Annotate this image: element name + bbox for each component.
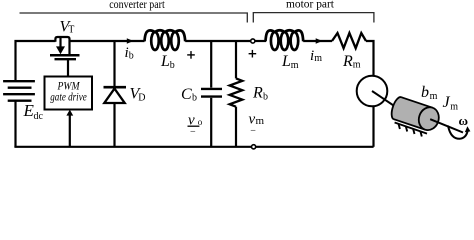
resistor R_b bbox=[230, 78, 243, 106]
svg-text:ω: ω bbox=[458, 113, 468, 128]
wire node to Lm bbox=[255, 40, 266, 42]
diode V_D bbox=[104, 87, 127, 103]
PWM gate drive box bbox=[45, 77, 93, 110]
node circle top bbox=[251, 39, 255, 43]
svg-text:b: b bbox=[129, 51, 134, 62]
transistor V_T bbox=[50, 37, 80, 77]
capacitor branch lower bbox=[210, 98, 212, 147]
load cylinder bbox=[389, 96, 442, 133]
svg-text:m: m bbox=[353, 60, 361, 71]
svg-text:L: L bbox=[281, 53, 291, 70]
svg-text:b: b bbox=[421, 84, 429, 101]
wire Rm to right rail bbox=[366, 41, 374, 75]
svg-text:b: b bbox=[170, 60, 175, 71]
diode V_D branch wire upper bbox=[113, 41, 115, 86]
svg-text:C: C bbox=[181, 86, 192, 103]
inductor L_m bbox=[266, 30, 304, 50]
svg-text:R: R bbox=[252, 85, 263, 102]
svg-text:motor part: motor part bbox=[286, 0, 335, 11]
svg-text:R: R bbox=[342, 53, 353, 70]
svg-text:converter part: converter part bbox=[109, 0, 165, 11]
motor shaft left bbox=[372, 91, 398, 109]
wire top middle segment bbox=[70, 40, 145, 42]
resistor R_b branch upper bbox=[235, 41, 237, 78]
wire between Lb and node bbox=[185, 40, 250, 42]
svg-text:gate drive: gate drive bbox=[50, 89, 87, 103]
wire Lm to Rm bbox=[303, 40, 332, 42]
svg-text:D: D bbox=[138, 93, 145, 104]
svg-text:dc: dc bbox=[34, 111, 44, 122]
wire top left segment bbox=[16, 41, 56, 81]
inductor L_b bbox=[145, 30, 186, 50]
node circle bottom bbox=[252, 145, 256, 149]
svg-text:o: o bbox=[198, 117, 203, 127]
wire left rail lower bbox=[14, 101, 16, 147]
resistor branch lower bbox=[235, 107, 237, 147]
svg-text:m: m bbox=[430, 91, 438, 102]
converter part bracket bbox=[20, 13, 248, 23]
plus sign v_m bbox=[249, 50, 257, 58]
svg-text:m: m bbox=[291, 60, 299, 71]
wire bottom bbox=[14, 146, 373, 148]
svg-text:m: m bbox=[314, 53, 322, 64]
capacitor C_b branch upper bbox=[210, 41, 212, 88]
transistor arrow bbox=[56, 46, 65, 54]
PWM control arrow bbox=[66, 110, 73, 147]
wire right rail lower bbox=[372, 107, 374, 147]
diode branch wire lower bbox=[113, 104, 115, 147]
resistor R_m bbox=[332, 33, 366, 48]
battery E_dc bbox=[3, 81, 35, 101]
capacitor C_b bbox=[201, 89, 222, 97]
current arrow i_m bbox=[316, 38, 323, 43]
plus sign v_o bbox=[187, 51, 195, 59]
svg-text:T: T bbox=[68, 25, 74, 36]
motor circle bbox=[357, 76, 388, 107]
svg-text:−: − bbox=[190, 126, 196, 137]
svg-text:b: b bbox=[263, 92, 268, 103]
support hatching bbox=[395, 123, 427, 137]
svg-text:b: b bbox=[192, 93, 197, 104]
shaft right bbox=[430, 119, 463, 132]
current arrow i_b bbox=[127, 38, 134, 43]
svg-text:−: − bbox=[250, 125, 256, 136]
motor part bracket bbox=[253, 13, 374, 23]
svg-text:L: L bbox=[160, 53, 170, 70]
svg-text:m: m bbox=[450, 101, 458, 112]
rotation arrow arc bbox=[448, 126, 468, 139]
svg-text:m: m bbox=[256, 115, 265, 127]
